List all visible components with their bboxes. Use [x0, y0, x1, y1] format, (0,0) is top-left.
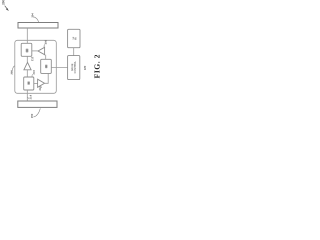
controller box 220	[68, 56, 80, 80]
wire G bottom down then left to triangle 216 apex	[45, 73, 49, 83]
1/f box 218	[68, 29, 80, 47]
wire E to F	[32, 50, 38, 52]
amp F triangle pointing left 206	[38, 47, 45, 54]
leader for label 216	[40, 87, 43, 88]
label 200	[2, 0, 4, 5]
box L pickoff block	[24, 77, 34, 90]
outer enclosure box 208	[15, 40, 57, 93]
text in 1/f box line 2	[75, 38, 77, 40]
glyph inside box E	[26, 49, 29, 53]
leader for label 204	[34, 17, 39, 22]
bottom electrode bar 202	[18, 101, 57, 107]
glyph inside box L	[27, 81, 30, 84]
label 208	[11, 70, 13, 74]
label 216	[39, 86, 41, 90]
top electrode bar 204	[18, 23, 58, 29]
leader for label 208	[12, 66, 15, 71]
label 206	[45, 40, 47, 44]
leader for label 202	[33, 108, 40, 117]
wire L right to right-triangle base	[34, 82, 38, 84]
label 220	[84, 66, 86, 70]
label 214	[30, 95, 32, 99]
label 210	[33, 70, 35, 74]
wire L bottom to bottom bar	[26, 90, 28, 101]
glyph inside box G	[45, 65, 48, 69]
controller text line 2	[74, 61, 76, 73]
wire G right edge to controller box	[51, 66, 67, 68]
wire top bar to box E	[26, 28, 28, 43]
right-pointing triangle 216	[38, 79, 45, 87]
label 202	[31, 114, 33, 118]
label 212	[31, 57, 33, 61]
controller text line 1	[71, 64, 73, 71]
caption FIG. 2	[95, 55, 100, 78]
box G filter block	[41, 59, 52, 73]
leader for label 210	[31, 74, 34, 77]
wire 1/f box to controller box	[73, 48, 75, 56]
arrow leader from label 200	[5, 6, 9, 11]
wire F base down to box G	[45, 55, 47, 60]
up-pointing triangle 212	[24, 62, 31, 70]
wire up-triangle base to box L	[26, 70, 28, 77]
label 204	[32, 13, 34, 17]
text in 1/f box line 1	[73, 37, 75, 40]
leader for label 214	[28, 97, 29, 98]
box E drive block	[21, 43, 32, 56]
wire E bottom to up-triangle apex	[26, 56, 28, 62]
leader for label 206	[43, 44, 46, 47]
